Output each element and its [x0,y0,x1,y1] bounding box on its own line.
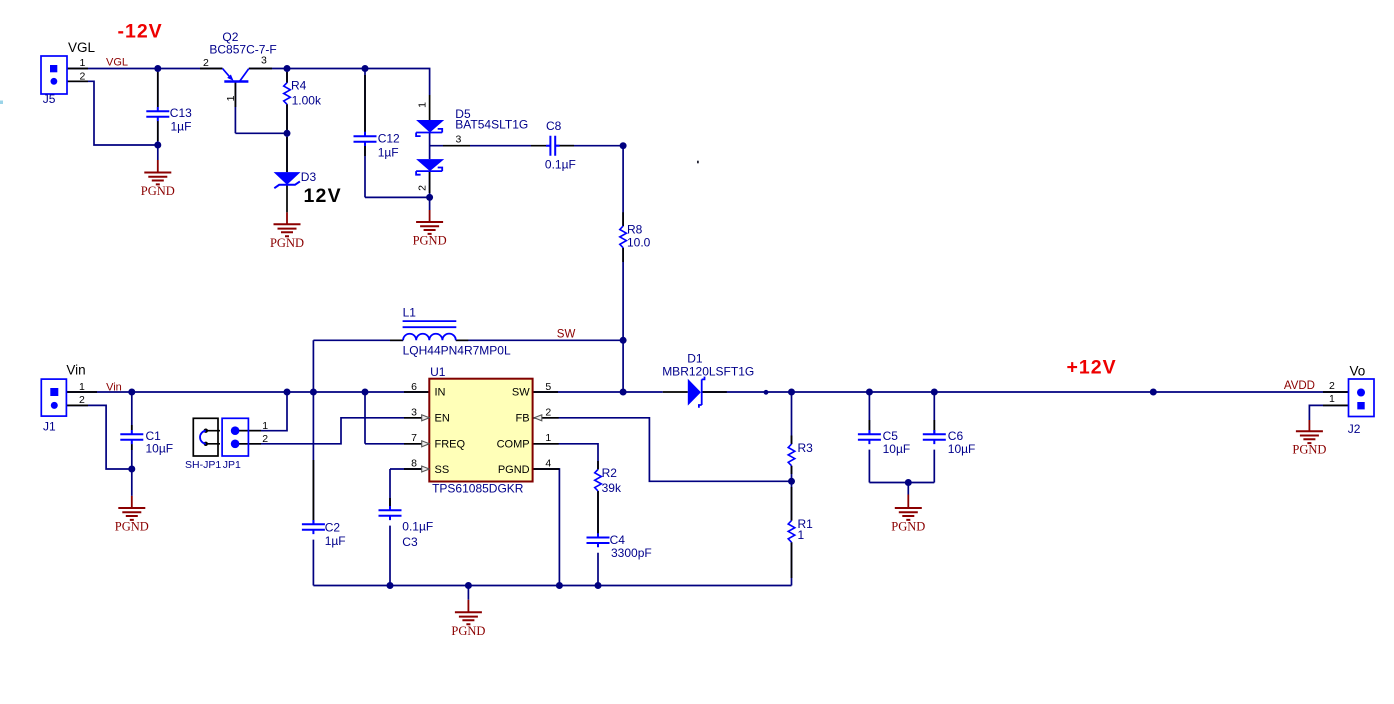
svg-text:1: 1 [262,420,268,432]
svg-text:10µF: 10µF [948,442,976,456]
svg-text:VGL: VGL [68,40,96,55]
svg-text:2: 2 [262,433,268,445]
svg-text:COMP: COMP [497,439,530,451]
svg-text:J2: J2 [1348,422,1361,436]
svg-text:6: 6 [411,381,417,393]
svg-text:VGL: VGL [106,57,128,69]
svg-text:C2: C2 [325,521,341,535]
svg-text:SW: SW [512,387,530,399]
svg-text:IN: IN [435,387,446,399]
svg-text:7: 7 [411,432,417,444]
svg-text:PGND: PGND [413,234,447,248]
svg-text:D1: D1 [687,351,703,365]
svg-text:C8: C8 [546,119,562,133]
svg-text:1: 1 [545,432,551,444]
svg-text:1: 1 [416,102,428,108]
svg-text:MBR120LSFT1G: MBR120LSFT1G [662,365,754,379]
svg-text:1: 1 [798,528,805,542]
svg-text:39k: 39k [602,481,622,495]
svg-text:PGND: PGND [270,236,304,250]
svg-text:3: 3 [456,134,462,146]
svg-text:Vin: Vin [106,381,122,393]
svg-text:PGND: PGND [1292,443,1326,457]
svg-text:BAT54SLT1G: BAT54SLT1G [455,117,528,131]
svg-text:R8: R8 [627,223,643,237]
svg-text:C13: C13 [170,106,192,120]
svg-text:1: 1 [79,381,85,393]
svg-text:3: 3 [261,55,267,67]
svg-text:8: 8 [411,458,417,470]
svg-text:+12V: +12V [1067,357,1117,379]
svg-text:10.0: 10.0 [627,236,651,250]
svg-text:5: 5 [545,381,551,393]
svg-text:L1: L1 [403,306,417,320]
svg-text:EN: EN [435,413,450,425]
svg-text:10µF: 10µF [146,442,174,456]
svg-text:PGND: PGND [451,624,485,638]
svg-text:PGND: PGND [115,520,149,534]
svg-text:PGND: PGND [141,184,175,198]
svg-text:1: 1 [1329,393,1335,405]
svg-text:2: 2 [416,185,428,191]
svg-text:JP1: JP1 [223,459,241,471]
svg-text:R4: R4 [291,78,307,92]
svg-text:2: 2 [80,71,86,83]
svg-text:2: 2 [79,394,85,406]
svg-text:1µF: 1µF [378,146,399,160]
svg-text:R2: R2 [602,466,618,480]
svg-text:10µF: 10µF [883,442,911,456]
svg-text:PGND: PGND [498,464,530,476]
svg-text:U1: U1 [430,365,446,379]
svg-text:3: 3 [411,406,417,418]
svg-text:C3: C3 [402,535,418,549]
svg-text:C4: C4 [610,533,626,547]
svg-text:SW: SW [557,329,576,341]
svg-text:Vo: Vo [1350,364,1366,379]
svg-text:J1: J1 [43,420,56,434]
svg-text:0.1µF: 0.1µF [402,520,433,534]
svg-text:FREQ: FREQ [435,439,466,451]
svg-text:SH-JP1: SH-JP1 [185,459,221,471]
svg-text:LQH44PN4R7MP0L: LQH44PN4R7MP0L [403,344,511,358]
svg-text:SS: SS [435,464,450,476]
svg-text:J5: J5 [43,92,56,106]
svg-text:3300pF: 3300pF [611,546,652,560]
svg-text:R3: R3 [798,441,814,455]
svg-text:1µF: 1µF [171,120,192,134]
svg-text:-12V: -12V [118,21,163,43]
svg-text:4: 4 [545,458,551,470]
svg-text:AVDD: AVDD [1284,380,1315,392]
svg-text:C12: C12 [378,132,400,146]
svg-text:0.1µF: 0.1µF [545,157,576,171]
svg-text:2: 2 [545,406,551,418]
svg-text:Vin: Vin [66,363,85,378]
svg-text:D3: D3 [301,170,317,184]
svg-text:1: 1 [225,95,237,101]
svg-text:12V: 12V [304,185,342,207]
svg-text:1: 1 [80,57,86,69]
svg-text:FB: FB [516,413,530,425]
svg-text:PGND: PGND [891,520,925,534]
svg-text:1.00k: 1.00k [292,93,322,107]
svg-text:TPS61085DGKR: TPS61085DGKR [432,482,524,496]
svg-text:2: 2 [1329,380,1335,392]
svg-text:2: 2 [203,57,209,69]
svg-text:1µF: 1µF [325,534,346,548]
